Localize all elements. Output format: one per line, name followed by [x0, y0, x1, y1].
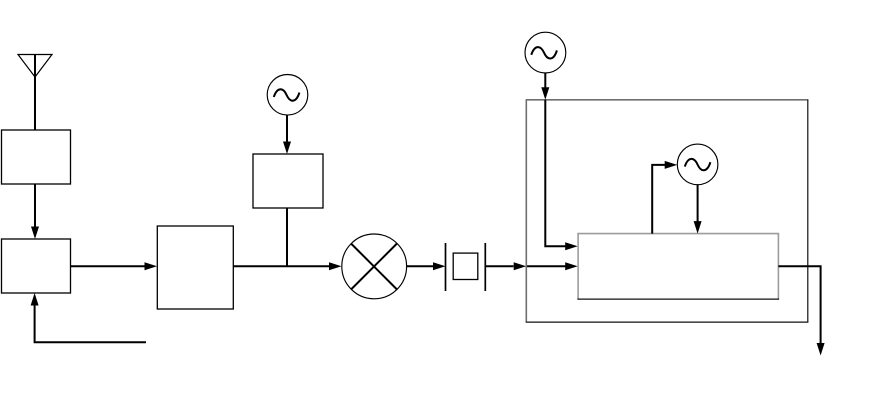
wire B1 to B2 (arrow down)	[31, 184, 39, 239]
wire G2 to demodulator (elbow, arrow right)	[545, 100, 577, 250]
wire B4 down to mixer input line	[286, 208, 288, 266]
wire AGC feedback into B2 bottom	[31, 293, 146, 342]
wire crystal to IC boundary (arrow right)	[485, 262, 526, 270]
wire IC boundary to demodulator (arrow right)	[526, 262, 578, 270]
mixer M1	[342, 234, 407, 299]
output wire (arrow down)	[778, 266, 824, 355]
arrow G1 to B4	[283, 115, 291, 154]
block B3 (gain stage)	[157, 226, 233, 309]
IC outer box U1	[526, 100, 809, 322]
feedback wire U2 to G3 (arrow right)	[652, 161, 677, 234]
oscillator G1	[267, 75, 308, 116]
antenna	[18, 55, 52, 131]
block B2 (amplifier)	[2, 239, 71, 293]
wire G2 into IC (arrow at boundary)	[541, 73, 549, 100]
demodulator inner box U2	[577, 233, 779, 299]
wire mixer to crystal (arrow right)	[407, 262, 446, 270]
wire B2 to B3 (arrow right)	[71, 262, 158, 270]
oscillator G2 (reference)	[525, 32, 566, 73]
block B1 (RF filter)	[2, 130, 71, 184]
arrow G3 to U2	[694, 185, 702, 234]
block B4 (LO buffer)	[253, 154, 323, 208]
wire B3 to mixer (arrow right)	[233, 262, 341, 270]
crystal filter X1	[446, 243, 486, 291]
oscillator G3 (VCO)	[677, 144, 718, 185]
